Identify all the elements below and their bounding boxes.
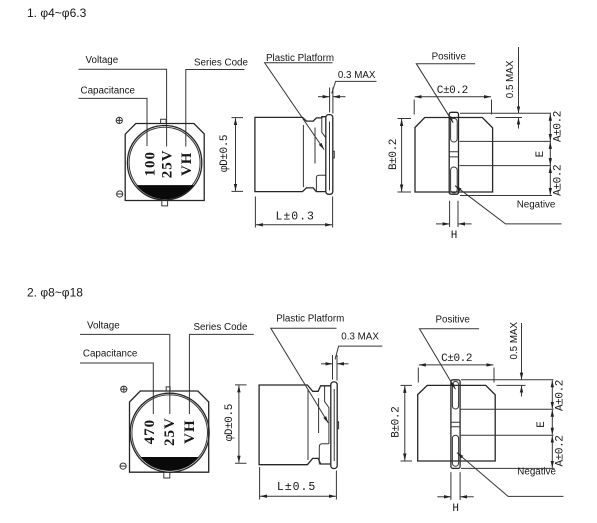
side view platform plate 2 (331, 382, 337, 469)
svg-text:A±0.2: A±0.2 (553, 165, 565, 196)
svg-text:2. φ8~φ18: 2. φ8~φ18 (27, 286, 83, 300)
svg-text:25V: 25V (162, 417, 178, 446)
svg-text:Series Code: Series Code (194, 57, 248, 68)
svg-text:φD±0.5: φD±0.5 (224, 404, 236, 441)
side view lead tip 2 (337, 422, 338, 429)
slot extension lines 1 (460, 141, 552, 165)
strip top extension 1 (460, 112, 551, 114)
side view crimp line 1 (302, 125, 304, 187)
svg-text:0.3 MAX: 0.3 MAX (341, 332, 379, 343)
inner circle 2 (132, 395, 208, 471)
svg-text:0.3 MAX: 0.3 MAX (338, 70, 376, 81)
svg-text:0.5 MAX: 0.5 MAX (505, 60, 516, 98)
svg-text:0.5 MAX: 0.5 MAX (509, 321, 520, 359)
terminal strip 1 (449, 112, 458, 194)
dimension H 2 extension lines (451, 472, 460, 500)
dimension B 1 line (401, 119, 403, 192)
svg-text:Voltage: Voltage (87, 320, 120, 331)
svg-text:E: E (535, 150, 547, 157)
minus symbol 1 (117, 191, 123, 197)
leader Capacitance (79, 98, 148, 146)
leader Negative 2 (457, 453, 564, 497)
dimension A bottom 2 (551, 436, 553, 468)
leader Plastic Platform 1 (265, 63, 333, 150)
dimension C 1 line (415, 96, 491, 98)
terminal strip 2 (451, 380, 460, 469)
side view lead contour 2 (325, 386, 329, 444)
svg-text:L±0.3: L±0.3 (275, 211, 315, 224)
dimension 0.5 MAX 1 arrows (518, 47, 520, 129)
svg-text:H: H (452, 503, 458, 515)
dimension L 1 extension lines (255, 197, 332, 228)
end view body 2 (418, 385, 496, 461)
leader Series Code (186, 70, 245, 147)
svg-text:Negative: Negative (517, 199, 556, 210)
side view crimp line 2 (307, 389, 309, 460)
svg-text:1. φ4~φ6.3: 1. φ4~φ6.3 (27, 6, 87, 20)
svg-text:B±0.2: B±0.2 (388, 139, 400, 170)
dimension C 2 extension lines (418, 368, 494, 383)
dimension 0.3 MAX 1 leader (332, 81, 377, 93)
svg-text:φD±0.5: φD±0.5 (219, 135, 231, 172)
dimension C 1 extension lines (414, 100, 491, 115)
leader Series Code 2 (189, 334, 253, 414)
side view bottom lead 1 (316, 175, 325, 191)
dimension 0.3 MAX 2 leader (335, 346, 382, 359)
polarity mark segment 2 (141, 457, 199, 471)
polarity mark segment 1 (136, 185, 194, 199)
slot extension lines 2 (460, 409, 554, 435)
leader Voltage (79, 69, 167, 146)
svg-text:470: 470 (142, 419, 158, 445)
dimension phiD 2 extension lines (235, 385, 247, 463)
svg-text:B±0.2: B±0.2 (391, 407, 403, 438)
leader Negative 1 (455, 186, 562, 224)
svg-text:VH: VH (182, 419, 198, 444)
dimension H 1 extension lines (450, 201, 458, 227)
svg-text:C±0.2: C±0.2 (441, 353, 472, 365)
dimension B 1 extension lines (398, 119, 412, 193)
negative slot 1 (451, 167, 458, 193)
leader Positive 2 (420, 329, 480, 390)
positive slot 2 (452, 381, 458, 409)
svg-text:L±0.5: L±0.5 (277, 481, 317, 494)
svg-text:A±0.2: A±0.2 (555, 435, 567, 466)
svg-text:H: H (451, 230, 457, 242)
strip bottom extension 1 (460, 195, 552, 197)
dimension 0.3 MAX 2 arrows (321, 363, 349, 365)
dimension phiD 1 extension lines (232, 118, 244, 192)
plus symbol 1 (116, 117, 122, 123)
side view plate inner line 2 (333, 389, 335, 461)
strip separator 1 (449, 152, 458, 157)
leader Voltage 2 (80, 334, 170, 414)
side view plate inner line 1 (329, 122, 331, 191)
inner circle 1 (129, 127, 200, 198)
negative slot 2 (452, 435, 458, 466)
svg-text:Negative: Negative (517, 466, 556, 477)
dimension phiD 2 line (238, 385, 240, 462)
side view platform plate 1 (326, 115, 333, 195)
dimension 0.3 MAX 1 extension lines (330, 88, 333, 114)
svg-text:Voltage: Voltage (86, 55, 119, 66)
outer circle 2 (130, 393, 209, 472)
bottom tab 1 (162, 201, 168, 206)
dimension 0.5 MAX 2 arrows (521, 323, 523, 397)
plus symbol 2 (121, 386, 127, 392)
strip bottom extension 2 (461, 467, 555, 469)
body top extension 1 (496, 117, 523, 119)
side view lead contour 1 (322, 118, 326, 138)
dimension A top 2 (551, 380, 553, 409)
leader Capacitance 2 (80, 363, 153, 414)
dimension H 1 arrows (436, 223, 472, 225)
dimension B 2 extension lines (401, 385, 413, 461)
svg-text:Series Code: Series Code (194, 322, 248, 333)
bottom tab 2 (164, 472, 170, 478)
svg-text:100: 100 (142, 151, 158, 177)
svg-text:A±0.2: A±0.2 (555, 380, 567, 411)
svg-text:A±0.2: A±0.2 (553, 111, 565, 142)
top tab 2 (166, 387, 170, 391)
svg-text:Positive: Positive (432, 52, 467, 63)
end view body 1 (415, 118, 493, 193)
svg-text:Plastic Platform: Plastic Platform (276, 314, 344, 325)
dimension B 2 line (404, 386, 406, 461)
dimension A top 1 (549, 114, 551, 141)
outer circle 1 (127, 126, 201, 200)
positive slot 1 (451, 118, 458, 142)
dimension 0.3 MAX 2 extension lines (333, 355, 338, 381)
svg-text:Capacitance: Capacitance (83, 349, 138, 360)
top tab 1 (161, 119, 167, 123)
minus symbol 2 (120, 463, 126, 469)
svg-text:E: E (536, 421, 548, 428)
top view square body 2 (130, 391, 209, 472)
dimension E 2 (551, 410, 553, 435)
svg-text:C±0.2: C±0.2 (437, 85, 468, 97)
dimension 0.3 MAX 1 arrows (318, 96, 346, 98)
body top extension 2 (497, 384, 526, 386)
side view bottom lead 2 (319, 444, 329, 465)
side view inner line 1 (314, 128, 316, 164)
dimension phiD 1 line (235, 118, 237, 191)
side view inner line 2 (318, 398, 320, 433)
leader Positive 1 (416, 64, 475, 123)
side view can 1 (255, 117, 326, 192)
svg-text:Positive: Positive (436, 314, 471, 325)
dimension A bottom 1 (549, 166, 551, 195)
dimension L 2 extension lines (260, 467, 337, 500)
side view can 2 (259, 385, 331, 465)
dimension L 1 line (256, 224, 332, 226)
dimension L 2 line (260, 495, 336, 497)
dimension C 2 line (419, 364, 494, 366)
dimension H 2 arrows (437, 496, 473, 498)
side view lead tip 1 (333, 151, 335, 158)
svg-text:Capacitance: Capacitance (81, 86, 136, 97)
strip separator 2 (451, 422, 460, 426)
dimension E 1 (549, 142, 551, 165)
svg-text:VH: VH (179, 152, 195, 177)
strip top extension 2 (461, 379, 554, 381)
top view square body 1 (125, 124, 204, 201)
leader Plastic Platform 2 (271, 328, 337, 423)
svg-text:25V: 25V (160, 149, 176, 178)
